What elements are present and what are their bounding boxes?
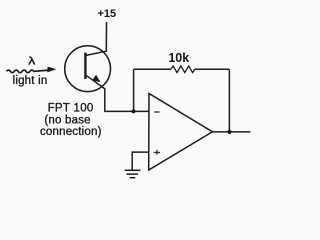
svg-text:λ: λ	[28, 54, 36, 67]
svg-text:(no base: (no base	[44, 114, 90, 126]
svg-text:FPT 100: FPT 100	[48, 103, 94, 115]
svg-text:+15: +15	[97, 8, 116, 20]
svg-text:light in: light in	[13, 75, 48, 87]
svg-text:connection): connection)	[40, 126, 102, 138]
svg-text:10k: 10k	[168, 51, 189, 65]
